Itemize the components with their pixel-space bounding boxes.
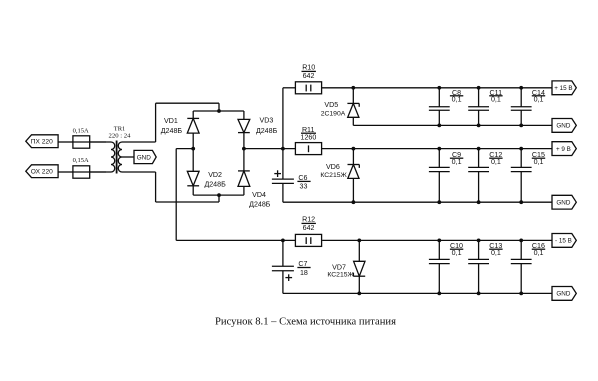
svg-text:- 15 В: - 15 В [555, 238, 572, 245]
svg-text:VD3: VD3 [259, 117, 273, 125]
svg-text:R12: R12 [302, 215, 315, 223]
svg-text:0,15А: 0,15А [73, 157, 89, 164]
svg-text:Рисунок 8.1 – Схема источника: Рисунок 8.1 – Схема источника питания [215, 317, 396, 328]
svg-text:0,1: 0,1 [491, 249, 501, 257]
svg-text:КС215Ж: КС215Ж [320, 172, 347, 179]
svg-text:1260: 1260 [301, 134, 317, 142]
svg-text:220 : 24: 220 : 24 [109, 133, 132, 140]
svg-text:VD4: VD4 [252, 191, 266, 199]
svg-text:Д248Б: Д248Б [204, 181, 226, 189]
svg-text:Д248Б: Д248Б [256, 127, 278, 135]
svg-text:642: 642 [303, 224, 315, 232]
svg-text:VD1: VD1 [164, 117, 178, 125]
svg-text:18: 18 [300, 269, 308, 277]
svg-text:0,1: 0,1 [452, 95, 462, 103]
svg-text:0,1: 0,1 [534, 158, 544, 166]
svg-text:Д248Б: Д248Б [161, 127, 183, 135]
svg-text:GND: GND [556, 123, 570, 130]
svg-text:VD6: VD6 [326, 163, 340, 171]
svg-text:GND: GND [137, 154, 152, 161]
svg-text:ОХ 220: ОХ 220 [31, 169, 53, 176]
svg-text:C7: C7 [298, 260, 307, 268]
svg-text:Д248Б: Д248Б [249, 201, 271, 209]
svg-text:0,1: 0,1 [452, 158, 462, 166]
svg-text:VD2: VD2 [208, 171, 222, 179]
svg-text:GND: GND [556, 291, 570, 298]
svg-text:VD7: VD7 [332, 264, 346, 272]
svg-text:R10: R10 [302, 64, 315, 72]
svg-text:TR1: TR1 [114, 125, 126, 132]
svg-text:0,1: 0,1 [534, 95, 544, 103]
svg-text:+ 15 В: + 15 В [554, 85, 572, 92]
svg-text:GND: GND [556, 200, 570, 207]
svg-text:+ 9 В: + 9 В [556, 146, 571, 153]
svg-text:0,1: 0,1 [491, 158, 501, 166]
svg-text:33: 33 [300, 183, 308, 191]
svg-text:0,1: 0,1 [491, 95, 501, 103]
svg-text:ПХ 220: ПХ 220 [31, 139, 53, 146]
svg-text:2С190А: 2С190А [321, 111, 346, 118]
svg-text:0,15А: 0,15А [73, 128, 89, 135]
svg-text:0,1: 0,1 [534, 249, 544, 257]
svg-text:0,1: 0,1 [452, 249, 462, 257]
svg-text:VD5: VD5 [324, 101, 338, 109]
svg-text:КС215Ж: КС215Ж [327, 272, 354, 279]
svg-text:642: 642 [303, 72, 315, 80]
